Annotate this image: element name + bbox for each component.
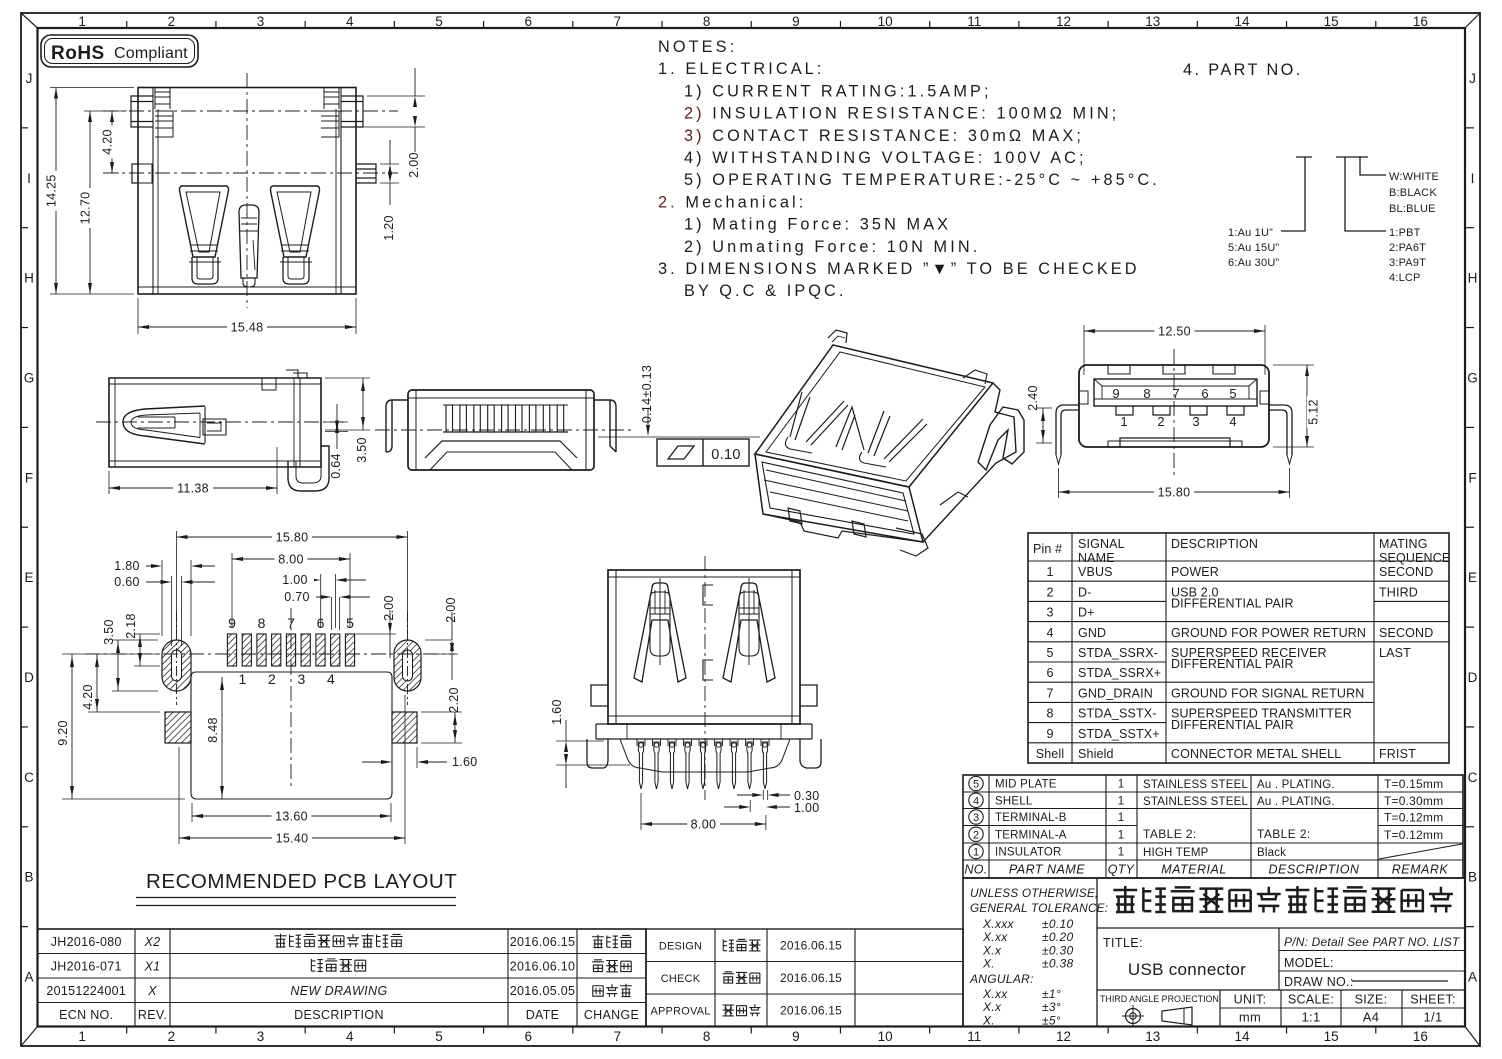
dim 0.30 — [762, 790, 764, 800]
svg-text:2: 2 — [1157, 414, 1164, 429]
dim 2.40 — [1036, 407, 1052, 409]
svg-text:8: 8 — [1046, 707, 1053, 721]
svg-text:1: 1 — [1046, 565, 1053, 579]
svg-text:1.20: 1.20 — [382, 215, 396, 241]
svg-text:2) INSULATION RESISTANCE: 100M: 2) INSULATION RESISTANCE: 100MΩ MIN; — [684, 105, 1119, 123]
svg-text:NOTES:: NOTES: — [658, 38, 737, 56]
svg-text:2: 2 — [168, 14, 176, 29]
svg-text:G: G — [24, 370, 35, 385]
svg-text:SIZE:: SIZE: — [1355, 993, 1388, 1007]
title block — [963, 878, 1465, 1027]
dim 8.48 — [221, 677, 223, 799]
rear top view with terminals — [375, 365, 760, 470]
svg-text:QTY: QTY — [1108, 863, 1136, 877]
svg-text:1.00: 1.00 — [794, 801, 820, 815]
svg-text:STDA_SSTX+: STDA_SSTX+ — [1078, 727, 1160, 741]
svg-text:15.40: 15.40 — [276, 832, 309, 846]
svg-text:2016.05.05: 2016.05.05 — [510, 984, 576, 998]
svg-text:±1°: ±1° — [1042, 987, 1061, 1001]
svg-text:11: 11 — [967, 1029, 981, 1044]
svg-text:13: 13 — [1145, 1029, 1160, 1044]
svg-text:11: 11 — [967, 14, 981, 29]
pin signal table — [1028, 533, 1450, 763]
side view of connector — [96, 370, 370, 496]
svg-text:TITLE:: TITLE: — [1103, 936, 1143, 950]
svg-text:5: 5 — [435, 1029, 443, 1044]
svg-text:REMARK: REMARK — [1392, 863, 1449, 877]
svg-text:X.xx: X.xx — [982, 930, 1008, 944]
svg-text:B:BLACK: B:BLACK — [1389, 187, 1437, 199]
svg-text:Au . PLATING.: Au . PLATING. — [1257, 779, 1335, 791]
svg-text:UNIT:: UNIT: — [1234, 993, 1267, 1007]
dim 13.60 — [191, 803, 193, 822]
svg-text:12: 12 — [1056, 14, 1071, 29]
svg-text:9: 9 — [1112, 386, 1119, 401]
dim 1.00 rear — [749, 800, 751, 812]
svg-text:7: 7 — [1172, 386, 1179, 401]
svg-text:RECOMMENDED PCB LAYOUT: RECOMMENDED PCB LAYOUT — [146, 870, 457, 893]
svg-text:7: 7 — [1046, 686, 1053, 700]
svg-text:0.64: 0.64 — [329, 453, 343, 479]
dim 0.14±0.13 — [647, 408, 649, 433]
svg-text:INSULATOR: INSULATOR — [995, 847, 1062, 859]
dim 2.00 left — [354, 633, 396, 635]
svg-text:Shell: Shell — [1036, 747, 1065, 761]
svg-text:8.00: 8.00 — [278, 553, 304, 567]
svg-text:SCALE:: SCALE: — [1288, 993, 1334, 1007]
dim 1.80 — [161, 560, 163, 636]
shell oval pads — [162, 640, 191, 691]
svg-text:3: 3 — [973, 812, 979, 824]
svg-text:SECOND: SECOND — [1379, 565, 1433, 579]
svg-text:1:Au 1U”: 1:Au 1U” — [1228, 227, 1273, 239]
right contact — [723, 583, 775, 682]
svg-text:Au . PLATING.: Au . PLATING. — [1257, 796, 1335, 808]
svg-text:1: 1 — [1118, 795, 1124, 807]
svg-text:T=0.15mm: T=0.15mm — [1384, 777, 1443, 791]
svg-text:W:WHITE: W:WHITE — [1389, 171, 1439, 183]
svg-text:2.00: 2.00 — [407, 152, 421, 178]
flatness feature control frame 0.10 — [657, 439, 749, 466]
dim 15.80 — [1058, 468, 1060, 498]
svg-text:LAST: LAST — [1379, 646, 1411, 660]
svg-text:8.48: 8.48 — [206, 717, 220, 743]
svg-text:1.60: 1.60 — [452, 755, 478, 769]
svg-text:2: 2 — [1046, 585, 1053, 599]
svg-text:X.: X. — [982, 1013, 995, 1027]
svg-text:2016.06.15: 2016.06.15 — [780, 938, 842, 952]
svg-text:2) Unmating Force: 10N MIN.: 2) Unmating Force: 10N MIN. — [684, 238, 980, 256]
svg-text:1:PBT: 1:PBT — [1389, 227, 1421, 239]
svg-text:Compliant: Compliant — [114, 45, 188, 62]
svg-text:X1: X1 — [144, 959, 161, 973]
svg-text:15: 15 — [1324, 14, 1339, 29]
front view of connector — [45, 68, 426, 335]
dim 2.00 right — [425, 653, 458, 655]
svg-text:I: I — [1471, 171, 1475, 186]
svg-text:1:1: 1:1 — [1302, 1010, 1321, 1025]
svg-text:2.20: 2.20 — [447, 687, 461, 713]
svg-text:6: 6 — [1201, 386, 1208, 401]
svg-text:1.00: 1.00 — [282, 573, 308, 587]
svg-text:DESCRIPTION: DESCRIPTION — [294, 1008, 384, 1022]
svg-text:1: 1 — [1118, 847, 1124, 859]
svg-text:A4: A4 — [1363, 1010, 1380, 1025]
svg-text:16: 16 — [1413, 14, 1428, 29]
svg-text:1: 1 — [973, 847, 979, 859]
svg-text:DESCRIPTION: DESCRIPTION — [1171, 537, 1258, 551]
svg-text:±0.38: ±0.38 — [1042, 957, 1073, 971]
svg-text:H: H — [1468, 271, 1478, 286]
revision table — [38, 929, 964, 1027]
dim 2.00 — [367, 95, 425, 97]
rear view with pins — [550, 556, 821, 832]
svg-text:1.60: 1.60 — [550, 699, 564, 725]
svg-text:H: H — [24, 271, 34, 286]
svg-text:X2: X2 — [144, 935, 161, 949]
svg-text:3.50: 3.50 — [102, 619, 116, 645]
recommended PCB layout — [56, 531, 478, 906]
svg-text:1: 1 — [1118, 812, 1124, 824]
svg-text:T=0.30mm: T=0.30mm — [1384, 794, 1443, 808]
svg-text:8: 8 — [258, 615, 266, 631]
svg-text:C: C — [24, 770, 34, 785]
svg-text:ANGULAR:: ANGULAR: — [969, 972, 1034, 986]
svg-text:9: 9 — [792, 1029, 800, 1044]
svg-text:A: A — [1468, 970, 1477, 985]
dim 4.20 pcb — [88, 711, 160, 713]
svg-text:7: 7 — [614, 1029, 622, 1044]
svg-text:1: 1 — [238, 671, 246, 687]
svg-text:UNLESS OTHERWISE,: UNLESS OTHERWISE, — [970, 886, 1098, 900]
svg-text:4:LCP: 4:LCP — [1389, 272, 1421, 284]
svg-text:13.60: 13.60 — [275, 810, 308, 824]
svg-text:1.80: 1.80 — [114, 559, 140, 573]
terminal pads — [227, 634, 236, 666]
svg-text:0.70: 0.70 — [284, 590, 310, 604]
svg-text:mm: mm — [1239, 1010, 1261, 1025]
svg-text:DESIGN: DESIGN — [659, 940, 702, 952]
svg-text:F: F — [25, 470, 33, 485]
dim 1.00 — [320, 574, 322, 628]
svg-text:±3°: ±3° — [1042, 1000, 1061, 1014]
svg-text:9: 9 — [792, 14, 800, 29]
svg-text:X.x: X.x — [982, 943, 1002, 957]
svg-text:14.25: 14.25 — [45, 174, 59, 207]
svg-text:0.60: 0.60 — [114, 575, 140, 589]
svg-text:NO.: NO. — [964, 863, 987, 877]
svg-text:5) OPERATING TEMPERATURE:-25°C: 5) OPERATING TEMPERATURE:-25°C ~ +85°C. — [684, 171, 1160, 189]
svg-text:5: 5 — [1229, 386, 1236, 401]
svg-text:GROUND FOR POWER RETURN: GROUND FOR POWER RETURN — [1171, 626, 1366, 640]
svg-text:MODEL:: MODEL: — [1284, 956, 1334, 970]
dim 1.20 — [380, 163, 399, 165]
approval block — [646, 929, 963, 1027]
dim 2.18 — [134, 633, 160, 635]
svg-text:REV.: REV. — [138, 1008, 167, 1022]
svg-text:D+: D+ — [1078, 606, 1095, 620]
svg-text:9.20: 9.20 — [56, 720, 70, 746]
svg-text:T=0.12mm: T=0.12mm — [1384, 828, 1443, 842]
svg-text:3: 3 — [1046, 606, 1053, 620]
svg-text:Shield: Shield — [1078, 747, 1114, 761]
svg-text:±5°: ±5° — [1042, 1013, 1061, 1027]
svg-text:VBUS: VBUS — [1078, 565, 1113, 579]
svg-text:J: J — [1469, 71, 1476, 86]
svg-text:SHEET:: SHEET: — [1410, 993, 1456, 1007]
mating face view — [1026, 325, 1321, 500]
svg-text:Black: Black — [1257, 847, 1286, 859]
svg-text:X.xxx: X.xxx — [982, 917, 1015, 931]
svg-text:2016.06.15: 2016.06.15 — [780, 1003, 842, 1017]
svg-text:3.50: 3.50 — [355, 437, 369, 463]
svg-text:2. Mechanical:: 2. Mechanical: — [658, 193, 806, 211]
svg-text:X.: X. — [982, 957, 995, 971]
svg-text:1: 1 — [78, 14, 86, 29]
svg-text:X.xx: X.xx — [982, 987, 1008, 1001]
svg-text:PART NAME: PART NAME — [1009, 863, 1085, 877]
svg-text:GND_DRAIN: GND_DRAIN — [1078, 686, 1153, 700]
dim 14.25 — [50, 87, 134, 89]
svg-text:1/1: 1/1 — [1424, 1010, 1443, 1025]
dim 1.60 pads — [391, 747, 393, 768]
svg-text:14: 14 — [1234, 14, 1250, 29]
svg-text:1) Mating Force: 35N MAX: 1) Mating Force: 35N MAX — [684, 216, 951, 234]
svg-text:4: 4 — [973, 795, 979, 807]
svg-text:2:PA6T: 2:PA6T — [1389, 242, 1426, 254]
svg-text:12.50: 12.50 — [1158, 325, 1191, 339]
svg-text:2.00: 2.00 — [382, 595, 396, 621]
svg-text:4.20: 4.20 — [101, 129, 115, 155]
left contact — [634, 583, 686, 682]
svg-text:MID PLATE: MID PLATE — [995, 779, 1057, 791]
svg-text:9: 9 — [1046, 727, 1053, 741]
svg-text:DIFFERENTIAL PAIR: DIFFERENTIAL PAIR — [1171, 657, 1294, 671]
notes text block — [658, 38, 1160, 300]
svg-text:15.80: 15.80 — [1158, 486, 1191, 500]
svg-text:FRIST: FRIST — [1379, 747, 1416, 761]
svg-text:10: 10 — [878, 1029, 893, 1044]
dim 0.70 — [331, 597, 333, 630]
svg-text:3: 3 — [297, 671, 305, 687]
svg-text:0.10: 0.10 — [711, 447, 740, 463]
svg-text:8: 8 — [703, 1029, 711, 1044]
svg-text:2016.06.15: 2016.06.15 — [510, 935, 576, 949]
svg-text:A: A — [24, 970, 33, 985]
svg-text:SECOND: SECOND — [1379, 626, 1433, 640]
svg-text:SHELL: SHELL — [995, 795, 1033, 807]
svg-text:DIFFERENTIAL PAIR: DIFFERENTIAL PAIR — [1171, 597, 1294, 611]
dim 0.64 — [325, 421, 348, 423]
svg-text:ECN NO.: ECN NO. — [59, 1008, 113, 1022]
svg-text:4. PART NO.: 4. PART NO. — [1183, 61, 1303, 79]
dim 0.60 — [171, 576, 173, 646]
svg-text:D: D — [1468, 670, 1478, 685]
svg-text:2: 2 — [168, 1029, 176, 1044]
svg-text:15: 15 — [1324, 1029, 1339, 1044]
svg-text:4: 4 — [327, 671, 335, 687]
svg-text:6: 6 — [524, 1029, 532, 1044]
svg-text:3:PA9T: 3:PA9T — [1389, 257, 1426, 269]
dim 3.50 — [325, 377, 370, 379]
svg-text:C: C — [1468, 770, 1478, 785]
dim 1.60 rear — [556, 740, 604, 742]
svg-text:T=0.12mm: T=0.12mm — [1384, 811, 1443, 825]
dim 12.50 — [1083, 325, 1085, 375]
svg-text:4: 4 — [1046, 626, 1053, 640]
svg-text:NEW DRAWING: NEW DRAWING — [290, 984, 387, 998]
dim 9.20 — [62, 653, 160, 655]
svg-text:5: 5 — [435, 14, 443, 29]
svg-text:15.80: 15.80 — [276, 531, 309, 545]
svg-text:±0.20: ±0.20 — [1042, 930, 1073, 944]
svg-text:B: B — [1468, 870, 1477, 885]
svg-text:USB connector: USB connector — [1128, 960, 1246, 979]
dim 15.40 — [178, 747, 180, 844]
svg-text:3: 3 — [257, 14, 265, 29]
svg-text:2: 2 — [973, 829, 979, 841]
svg-text:DESCRIPTION: DESCRIPTION — [1269, 863, 1360, 877]
svg-text:HIGH TEMP: HIGH TEMP — [1143, 847, 1209, 859]
svg-text:2.18: 2.18 — [124, 613, 138, 639]
svg-text:THIRD: THIRD — [1379, 585, 1418, 599]
svg-text:6: 6 — [1046, 666, 1053, 680]
svg-text:±0.30: ±0.30 — [1042, 943, 1073, 957]
svg-text:BY Q.C & IPQC.: BY Q.C & IPQC. — [684, 282, 847, 300]
svg-text:14: 14 — [1234, 1029, 1250, 1044]
company name (chinese) — [1097, 927, 1465, 929]
svg-text:G: G — [1467, 370, 1478, 385]
part no. legend — [1183, 61, 1439, 284]
svg-text:1. ELECTRICAL:: 1. ELECTRICAL: — [658, 60, 824, 78]
svg-text:4: 4 — [1229, 414, 1236, 429]
svg-text:STAINLESS STEEL: STAINLESS STEEL — [1143, 796, 1248, 808]
svg-text:D: D — [24, 670, 34, 685]
svg-text:6: 6 — [524, 14, 532, 29]
svg-text:12.70: 12.70 — [79, 192, 93, 225]
svg-text:11.38: 11.38 — [177, 482, 209, 496]
dim 5.12 — [1273, 364, 1314, 366]
svg-text:3: 3 — [257, 1029, 265, 1044]
svg-text:RoHS: RoHS — [51, 43, 105, 64]
svg-text:BL:BLUE: BL:BLUE — [1389, 203, 1436, 215]
svg-text:3. DIMENSIONS MARKED ”▼” TO BE: 3. DIMENSIONS MARKED ”▼” TO BE CHECKED — [658, 260, 1140, 278]
svg-text:STAINLESS STEEL: STAINLESS STEEL — [1143, 779, 1248, 791]
svg-text:F: F — [1468, 470, 1476, 485]
svg-text:JH2016-071: JH2016-071 — [51, 959, 122, 973]
svg-text:2.40: 2.40 — [1026, 385, 1040, 411]
svg-text:E: E — [1468, 570, 1477, 585]
svg-text:X: X — [147, 984, 157, 998]
svg-text:1: 1 — [1118, 829, 1124, 841]
svg-text:2.00: 2.00 — [444, 597, 458, 623]
svg-text:B: B — [24, 870, 33, 885]
mount square pads — [165, 712, 191, 743]
solder legs — [1056, 405, 1079, 455]
dim 2.20 — [421, 711, 462, 713]
svg-text:GND: GND — [1078, 626, 1106, 640]
svg-text:TERMINAL-B: TERMINAL-B — [995, 812, 1067, 824]
svg-text:STDA_SSTX-: STDA_SSTX- — [1078, 707, 1157, 721]
RoHS Compliant label — [41, 35, 198, 67]
svg-text:DIFFERENTIAL PAIR: DIFFERENTIAL PAIR — [1171, 718, 1294, 732]
svg-text:STDA_SSRX-: STDA_SSRX- — [1078, 646, 1158, 660]
svg-text:MATING: MATING — [1379, 537, 1428, 551]
svg-text:13: 13 — [1145, 14, 1160, 29]
svg-text:TABLE 2:: TABLE 2: — [1143, 827, 1197, 841]
svg-text:1: 1 — [1118, 779, 1124, 791]
svg-text:TERMINAL-A: TERMINAL-A — [995, 829, 1067, 841]
svg-text:POWER: POWER — [1171, 565, 1219, 579]
dim 8.00 pcb — [231, 553, 233, 628]
svg-text:5:Au 15U”: 5:Au 15U” — [1228, 242, 1279, 254]
svg-text:JH2016-080: JH2016-080 — [51, 935, 122, 949]
svg-text:±0.10: ±0.10 — [1042, 917, 1073, 931]
svg-text:STDA_SSRX+: STDA_SSRX+ — [1078, 666, 1161, 680]
parts list table — [963, 775, 1463, 878]
dim 11.38 — [108, 471, 110, 494]
svg-text:DATE: DATE — [526, 1008, 560, 1022]
svg-text:5: 5 — [973, 779, 979, 791]
svg-text:2016.06.10: 2016.06.10 — [510, 959, 576, 973]
svg-text:6:Au 30U”: 6:Au 30U” — [1228, 257, 1279, 269]
svg-text:8: 8 — [703, 14, 711, 29]
svg-text:D-: D- — [1078, 585, 1092, 599]
dim 8.00 rear — [640, 793, 642, 830]
svg-text:CHANGE: CHANGE — [584, 1008, 639, 1022]
svg-text:1: 1 — [78, 1029, 86, 1044]
svg-text:CONNECTOR METAL SHELL: CONNECTOR METAL SHELL — [1171, 747, 1341, 761]
svg-text:1) CURRENT RATING:1.5AMP;: 1) CURRENT RATING:1.5AMP; — [684, 82, 992, 100]
svg-text:2: 2 — [268, 671, 276, 687]
svg-text:GROUND FOR SIGNAL RETURN: GROUND FOR SIGNAL RETURN — [1171, 686, 1364, 700]
svg-text:15.48: 15.48 — [231, 321, 264, 335]
svg-text:TABLE 2:: TABLE 2: — [1257, 827, 1311, 841]
svg-text:CHECK: CHECK — [661, 973, 701, 985]
svg-text:4: 4 — [346, 1029, 354, 1044]
dim 12.70 — [84, 110, 127, 112]
svg-text:5.12: 5.12 — [1307, 399, 1321, 425]
dim 15.80 pcb — [176, 531, 178, 634]
svg-text:GENERAL TOLERANCE:: GENERAL TOLERANCE: — [970, 901, 1108, 915]
svg-text:Pin #: Pin # — [1033, 542, 1062, 556]
svg-text:4: 4 — [346, 14, 354, 29]
svg-text:3) CONTACT RESISTANCE: 30mΩ MA: 3) CONTACT RESISTANCE: 30mΩ MAX; — [684, 127, 1084, 145]
svg-text:16: 16 — [1413, 1029, 1428, 1044]
svg-text:P/N: Detail See PART NO. LIST: P/N: Detail See PART NO. LIST — [1284, 935, 1461, 949]
terminal pins — [637, 739, 645, 746]
svg-text:8.00: 8.00 — [691, 818, 717, 832]
svg-text:E: E — [24, 570, 33, 585]
svg-text:J: J — [26, 71, 33, 86]
dim 4.20 — [106, 172, 119, 174]
dim 15.48 — [137, 298, 139, 334]
svg-text:THIRD ANGLE PROJECTION: THIRD ANGLE PROJECTION — [1100, 994, 1219, 1004]
svg-text:SIGNAL: SIGNAL — [1078, 537, 1125, 551]
svg-text:20151224001: 20151224001 — [46, 984, 126, 998]
svg-text:3: 3 — [1192, 414, 1199, 429]
svg-text:2016.06.15: 2016.06.15 — [780, 971, 842, 985]
svg-text:5: 5 — [1046, 646, 1053, 660]
svg-text:0.14±0.13: 0.14±0.13 — [640, 365, 654, 423]
svg-text:1: 1 — [1120, 414, 1127, 429]
svg-text:X.x: X.x — [982, 1000, 1002, 1014]
svg-text:MATERIAL: MATERIAL — [1161, 863, 1227, 877]
svg-text:APPROVAL: APPROVAL — [650, 1005, 710, 1017]
svg-text:7: 7 — [614, 14, 622, 29]
svg-text:4) WITHSTANDING VOLTAGE: 100V: 4) WITHSTANDING VOLTAGE: 100V AC; — [684, 149, 1087, 167]
svg-text:I: I — [27, 171, 31, 186]
